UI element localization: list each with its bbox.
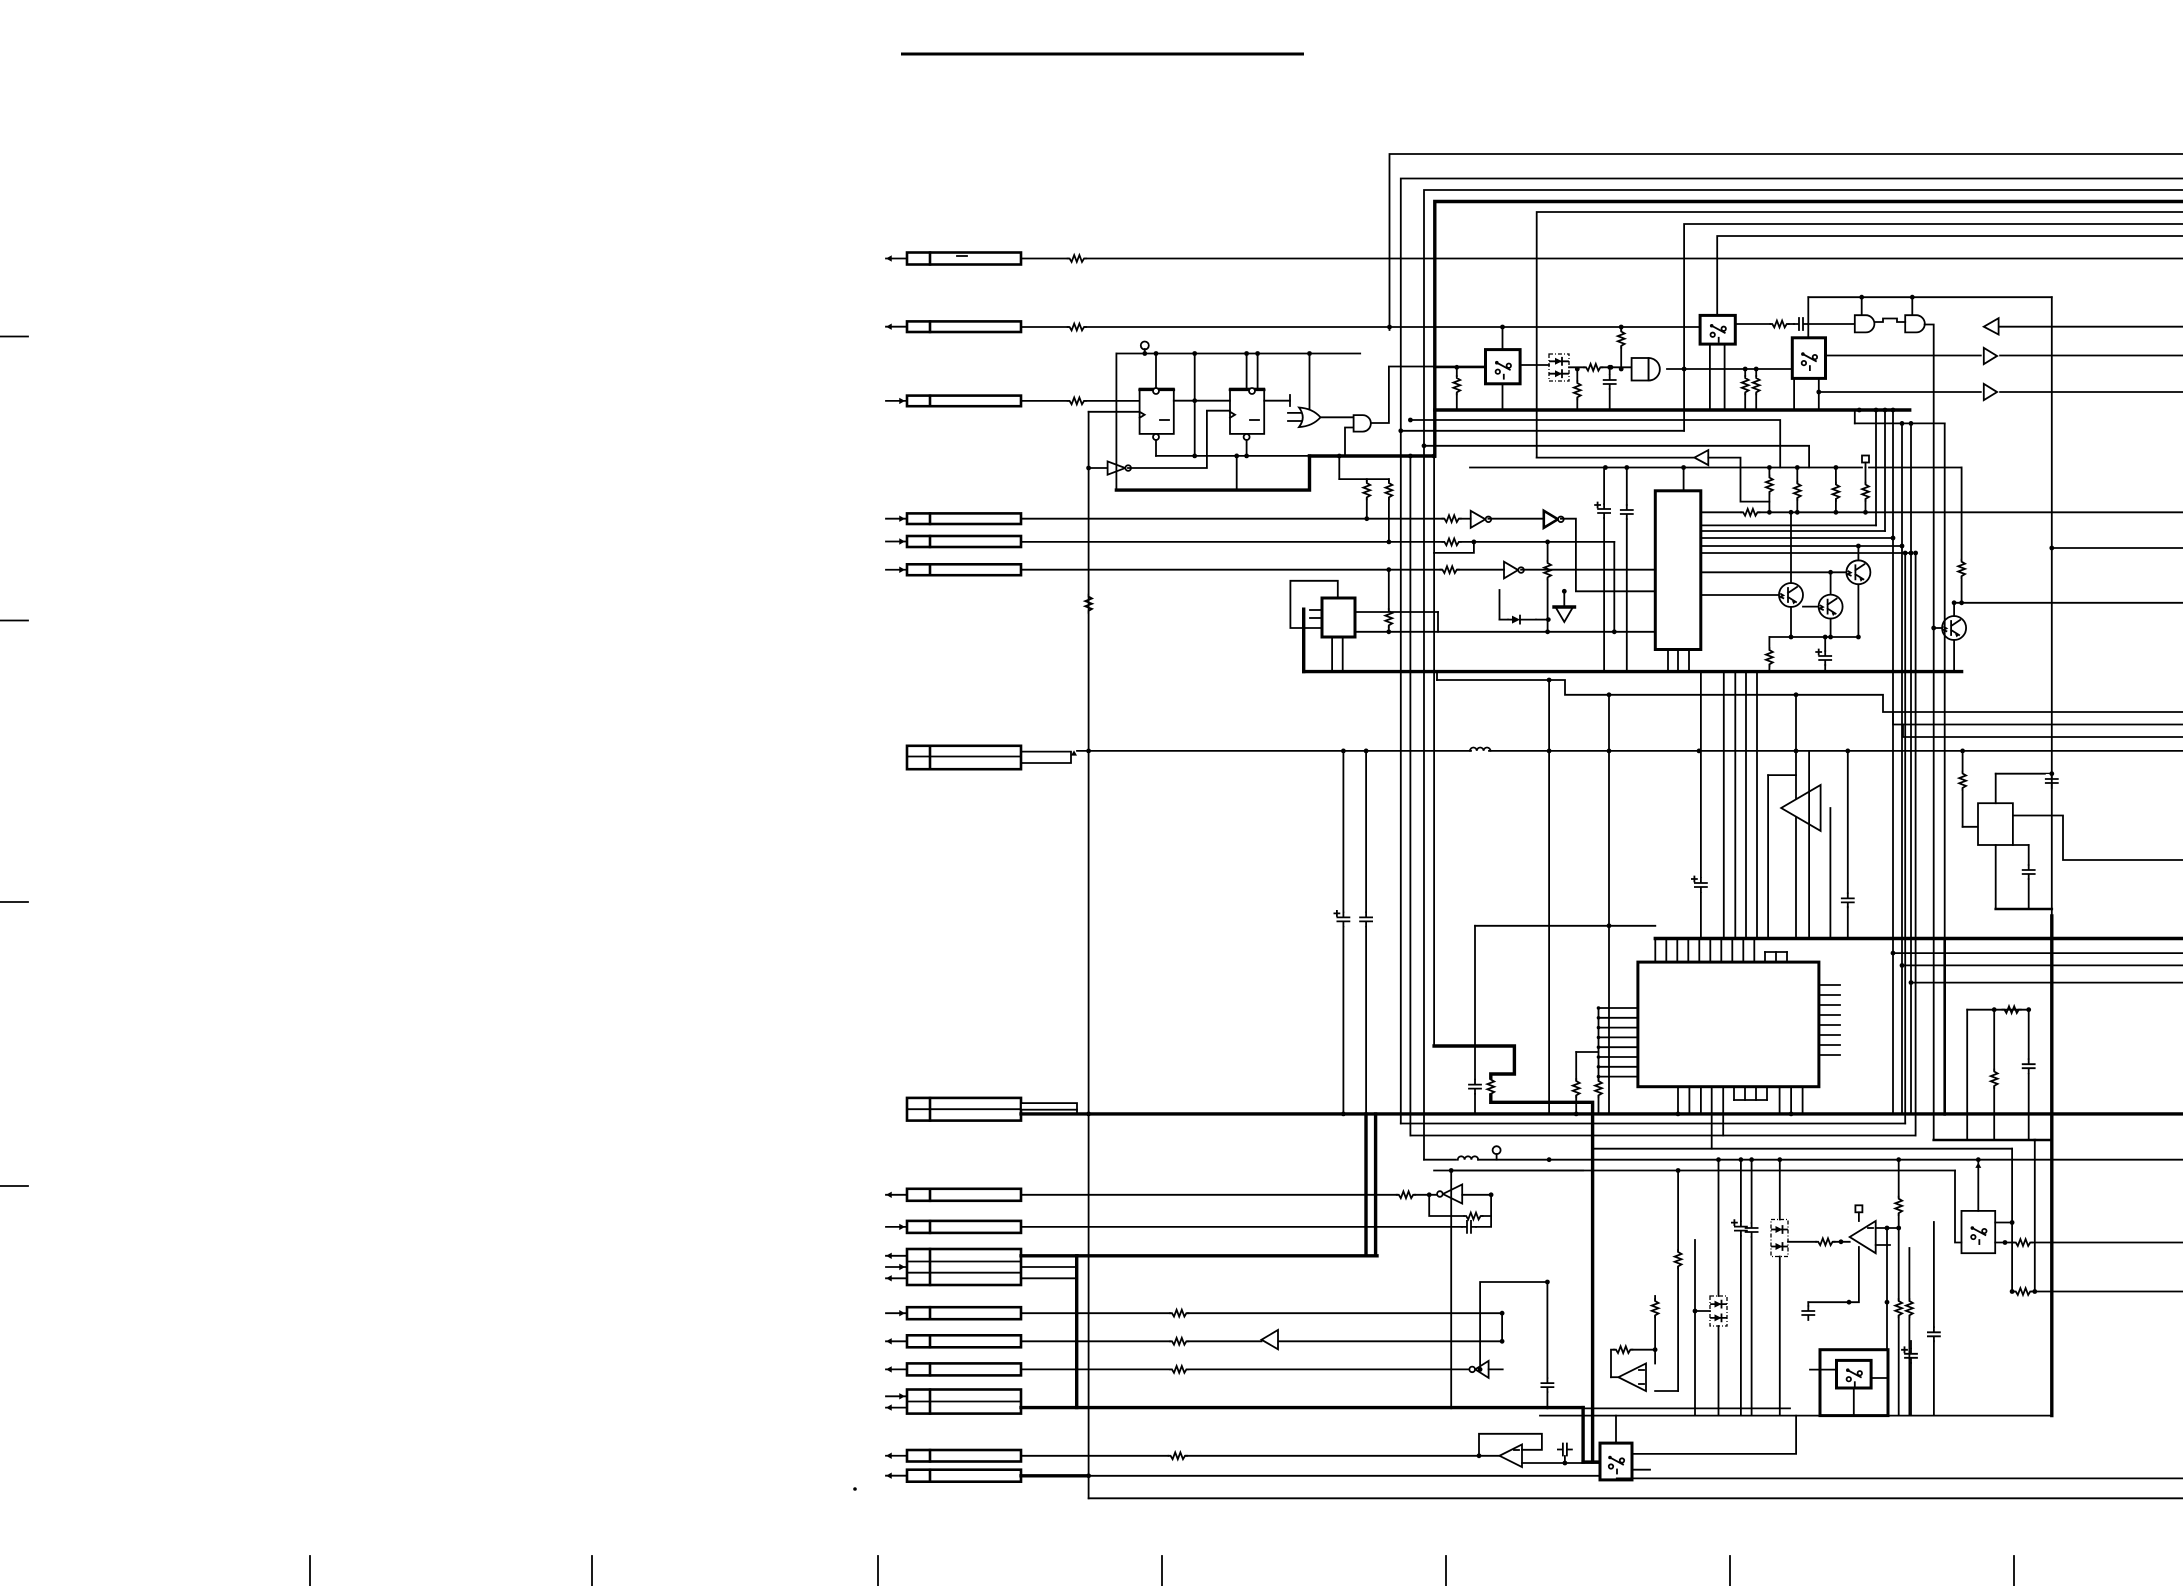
wire thick vert conn11 [1075,1256,1078,1408]
wire qc base [1701,571,1847,573]
capacitor C9 [1692,877,1707,893]
amp U13 [1781,785,1820,831]
wire stair 737 [1903,725,2183,738]
wire line 1498 [1089,1497,2183,1499]
resistor R9 [1544,561,1551,579]
wire v1549 [1547,678,1552,1115]
resistor R23 [1958,468,1965,603]
ic U14 [1638,962,1819,1087]
wire U8 bottom pins [1332,637,1343,672]
resistor R20 [1862,483,1869,501]
wire gate out [1667,367,1792,372]
wire net CONN14 [1021,1368,1470,1370]
wire c2-anda [1808,323,1855,325]
wire pin line 553 [1701,552,1911,554]
connector P9 [886,1189,1021,1201]
ic U8 [1322,598,1355,637]
wire conn5 left branch [1434,542,1474,553]
resistor R10 [1440,566,1458,573]
wire u11 bottom pins [1668,650,1689,672]
resistor R4 [1085,595,1092,613]
page tick bottom 4 [1161,1556,1163,1586]
resistor R29 [1464,1213,1482,1220]
wire pin line 538 [1701,537,1893,539]
wire u19 fb [1611,1350,1655,1378]
connector P7 [907,746,1021,769]
connector P4 [886,513,1021,524]
resistor R43 [1991,1006,2021,1088]
wire u14 bottom pins [1678,1087,1803,1115]
wire thick pair [1366,1114,1376,1256]
capacitor C2 [1794,318,1808,330]
wire amp flag [1768,692,1798,938]
buffer U12 [1537,450,1709,465]
wire FF mid vertical [1192,351,1197,456]
capacitor C3 [1595,468,1610,672]
diode D1 [1508,616,1536,624]
wire FF lower link [1156,454,1310,459]
resistor R35 [1652,1296,1659,1352]
resistor R27 [1487,1078,1494,1096]
arrow A1 [1262,1330,1279,1349]
resistor R42 [2014,1288,2032,1295]
buffer U6 [1544,511,1564,528]
wire q3 coll [1828,570,1833,595]
wire diode branch [1500,590,1551,622]
wire net CONN5 [1021,540,1614,545]
connector P10 [886,1221,1021,1233]
wire line 1171 [1434,1170,1955,1172]
switch SW5 [1962,1211,1996,1253]
wire v1885 [1883,408,1888,531]
inductor L1 [1470,748,1490,751]
wire sw2 out [1735,323,1770,325]
wire q2 emit [1789,607,1794,639]
pull-up terminal [1141,342,1149,356]
wire pin line 531 [1701,530,1885,532]
op-amp U20 [1850,1221,1876,1253]
wire c13 up [1476,1216,1491,1227]
wire bus h5 [1537,212,2183,458]
wire and output [1371,367,1485,424]
resistor R17 [1766,476,1773,494]
wire sw6 wires [1810,1370,1888,1416]
capacitor C11 [2046,774,2058,788]
wire sw1 bottom [1502,384,1504,410]
wire net 751 [1077,749,2183,754]
wire staircase 680 [1437,672,2183,712]
wire triple thick leads [1021,1256,1077,1279]
resistor R37 [1816,1238,1834,1245]
wire line 1148 [1593,1148,2013,1150]
capacitor C16 [1732,1220,1747,1236]
wire line 1163 [1424,1157,2183,1162]
wire sw2 bottom [1710,344,1725,410]
wire right lines 983 [1911,982,2183,984]
wire bus h7 [1717,236,2183,315]
wire step line 423 [1855,410,1945,423]
capacitor C13 [1462,1221,1476,1233]
buffer T2 [1984,384,1997,400]
capacitor C1 [1604,365,1616,410]
wire FF1 D line [1174,400,1230,402]
wire u14 top pins short [1765,952,1787,962]
op-amp U19 [1618,1364,1646,1392]
wire left vertical bus [1088,412,1090,1499]
wire sw1 in [1434,366,1486,368]
wire net CONN3 [1021,400,1140,402]
wire line 603 [1954,600,2183,605]
wire med bus 1140 [2035,1139,2052,1142]
flip-flop U1A [1140,388,1174,440]
connector P16 [886,1450,1021,1462]
diode pack DP2 [1710,1296,1727,1326]
wire thick bus 1256 [1077,1254,1377,1257]
resistor R15 [1753,367,1760,410]
resistor R41 [2014,1239,2032,1246]
wire net CONN12 [1021,1311,1505,1316]
resistor R19 [1833,483,1840,501]
flip-flop U1B [1230,388,1264,440]
wire right lines 965 [1902,964,2183,966]
page tick bottom 1 [309,1556,311,1586]
resistor R38 [1895,1157,1902,1230]
connector P6 [886,564,1021,575]
wire long vertical right [2049,297,2054,1415]
wire or-and link [1321,416,1354,418]
wire line 926 [1475,926,1655,1115]
wire u14 top pins [1655,939,1754,963]
terminal square [1862,456,1869,468]
wire u15 top [1996,774,2052,804]
page tick bottom 5 [1445,1556,1447,1586]
gate U9 [1632,358,1660,381]
page tick bottom 7 [2013,1556,2015,1586]
transistor Q3 [1819,595,1843,619]
wire thick link 456 [1310,454,1435,457]
wire U7 out [1521,569,1655,571]
wire line 637 [1769,635,1858,640]
wire net CONN10 [1021,1226,1462,1228]
transistor Q2 [1779,583,1803,607]
wire u14 right pins [1819,985,1840,1055]
resistor R3 [1068,398,1086,405]
resistor R39 [1895,1228,1902,1416]
wire sw5 right up [1995,1149,2014,1292]
wire amp pins [1809,751,1848,939]
wire pin header thick [1655,937,2183,940]
diode pack DP3 [1771,1220,1788,1257]
connector P5 [886,536,1021,547]
resistor R34 [1614,1346,1632,1353]
wire sw3 top [1807,297,1809,338]
resistor R33 [1169,1452,1187,1459]
wire u18 out [1522,1461,1600,1466]
wire res pair stub [1337,454,1389,481]
wire q4 emit [1953,640,1955,672]
wire line 1291 [2010,1289,2183,1294]
resistor R22 [1766,637,1773,672]
wire mid block [1967,1007,2031,1140]
wire U8 left pins [1310,610,1322,618]
page tick left 3 [0,901,28,903]
wire andb out [1925,325,1934,1141]
switch SW6 outer [1820,1350,1888,1416]
wire conn5 drop1 [1547,542,1549,632]
wire net CONN17 [1021,1473,1600,1478]
page tick left 1 [0,336,28,338]
wire left-arrow line [1984,318,2183,334]
capacitor C8 [1469,1080,1481,1094]
wire pin line 525 [1701,524,1876,526]
switch SW2 [1700,315,1735,344]
ic U11 [1655,491,1701,650]
wire step 430 [1398,428,1684,433]
wire OR top feed [1307,351,1312,408]
wire v2034 [1934,1140,2035,1292]
connector P8 [907,1098,1021,1121]
wire q1 emit [1856,584,1861,639]
wire u16 top [1449,1168,1454,1408]
resistor R45 [1574,367,1581,410]
and-gate U10B [1905,315,1925,332]
wire qa base [1701,594,1779,596]
wire FF1 bottom [1155,440,1157,456]
wire q2 coll [1789,510,1794,583]
wire inverter out [1128,411,1230,468]
connector P11 [886,1249,1021,1285]
resistor R1 [1068,255,1086,262]
resistor R18 [1794,482,1801,500]
connector P13 [886,1335,1021,1347]
wire FF ground bus thick [1116,354,1309,491]
wire and second input [1345,428,1354,457]
resistor R24 [1573,1052,1599,1114]
op-amp U18 [1500,1445,1523,1468]
inverter U16 [1437,1184,1462,1203]
wire ic-small link [1355,629,1655,634]
capacitor C19 [1928,1222,1940,1416]
switch SW4 [1600,1443,1632,1480]
stray dot [853,1487,857,1491]
wire cluster rail [1808,295,2052,300]
wire rail 1416 [1540,1415,2052,1417]
wire P7 leads [1021,750,1077,763]
wire line 1171b [1451,1170,1583,1172]
wire main bus thick [1021,1112,2183,1117]
resistor R31 [1170,1338,1188,1345]
title rule [901,53,1304,56]
page tick bottom 6 [1729,1556,1731,1586]
page tick left 4 [0,1185,28,1187]
connector P2 [886,321,1021,332]
resistor R13 [1584,364,1602,371]
wire conn5 drop2 [1613,542,1615,632]
wire bus h1 [1390,154,2183,330]
wire q1 coll [1856,544,1861,561]
transistor Q1 [1846,560,1870,584]
capacitor C21 [2023,1059,2035,1073]
wire q3 emit [1828,619,1833,640]
and-gate U10A [1855,315,1875,332]
wire v1502 [1501,1313,1503,1341]
resistor R12 [1453,365,1460,410]
wire u14 drop pins [1712,1087,1724,1149]
ref triangle [1554,589,1575,622]
connector P14 [886,1363,1021,1375]
wire r44-c2 [1788,323,1794,325]
wire v1876 [1874,408,1879,526]
wire r13-gate [1602,365,1632,370]
wire pin line 546 [1701,545,1902,547]
wire u15 right step [2013,816,2183,861]
wire v1609 [1607,692,1612,1114]
wire v1944 med [1944,423,1946,1114]
wire U6 out [1561,519,1655,592]
wire thick bus 410 [1435,408,1910,413]
buffer U7 [1504,562,1524,579]
capacitor C18 [1802,1302,1814,1320]
wire v1741 [1739,1157,1744,1415]
wire sw5 left [1955,1171,1962,1243]
wire stair 724 [1893,712,2183,725]
wire v1752 [1749,1157,1754,1415]
wire FF2 bottom [1234,440,1246,490]
page tick left 2 [0,620,28,622]
wire U8 top loop [1290,581,1337,628]
wire sw5 top [1975,1160,1981,1211]
buffer U5 [1471,511,1492,528]
inverter U2 [1086,461,1131,474]
resistor R11 [1385,567,1392,632]
transistor Q4 [1942,616,1966,640]
wire anda top [1861,297,1863,315]
wire r37-opamp [1834,1239,1850,1244]
terminal square 2 [1855,1205,1862,1221]
ic U15 [1978,803,2013,845]
wire u12 loop [1708,458,1769,502]
page tick bottom 2 [591,1556,593,1586]
wire qb base [1803,606,1819,608]
wire net CONN2 [1021,326,1700,328]
wire T2 line [1816,390,2183,395]
resistor R36 [1655,1168,1681,1391]
resistor R25 [1595,1077,1602,1115]
resistor R26 [1959,772,1966,790]
wire sw4 top [1615,1416,1617,1444]
buffer U17 [1469,1361,1502,1378]
diode pack DP1 [1549,354,1569,381]
wire sw5 out [1995,1240,2183,1245]
wire u14 left rail [1598,1008,1600,1077]
capacitor C5 [1816,637,1831,672]
resistor R8 [1442,539,1460,546]
pull-up terminal 2 [1493,1146,1501,1160]
page tick bottom 3 [877,1556,879,1586]
wire res group [1769,468,1865,513]
wire net CONN16 [1021,1455,1500,1457]
wire u16 fb [1427,1192,1494,1216]
connector P8 extension [1021,1103,1077,1114]
wire U8 right link [1355,612,1438,632]
wire u18 loop [1477,1434,1542,1458]
wire FF supply rail [1116,353,1360,355]
wire bus h6 [1684,224,2183,431]
wire u14 left pins [1597,1006,1638,1078]
wire q4 coll [1952,600,1957,616]
resistor R21 [1741,509,1759,516]
inductor L2 [1458,1156,1478,1159]
wire net CONN1 [1021,258,2183,260]
wire step 445 [1422,443,1810,467]
and-gate U4 [1354,415,1371,432]
wire andb top [1911,297,1913,315]
wire thick jog path [1434,1046,1593,1462]
connector P12 [886,1307,1021,1319]
wire bus h4 thick [1435,202,2183,457]
switch SW6 inner [1837,1360,1872,1388]
wire rail 468 [1470,465,1962,470]
wire thick L U8 [1304,609,1962,671]
wire dp3 wires [1777,1157,1816,1415]
resistor R40 [1906,1248,1913,1416]
wire thick bus 1408 [1021,1408,1600,1463]
wire net CONN4 [1021,518,1471,520]
wire u20 plus wires [1876,1226,1899,1245]
wire T1 line [1826,355,2183,357]
resistor R14 [1742,367,1749,410]
wire bus h3 [1424,190,2183,1160]
resistor R5 [1363,481,1370,521]
wire a-b jog [1874,319,1905,323]
capacitor C10 [1842,893,1854,907]
wire line 512 [1701,510,2183,515]
resistor R16 [1618,327,1625,371]
connector P15 [886,1390,1021,1414]
wire amp verticals [1701,672,1768,939]
wire FF1 clk line [1089,411,1140,413]
capacitor C4 [1621,468,1633,672]
capacitor C14 [1541,1282,1553,1408]
wire dp2 wires [1693,1157,1721,1415]
wire v1962 [1963,751,1978,827]
connector P1 [886,253,1021,265]
wire right lines 953 [1893,952,2183,954]
wire v1902 [1900,421,1905,1114]
connector P3 [886,396,1021,407]
wire bus h2 [1401,179,2183,1124]
wire u11 top pin [1683,468,1685,491]
wire sw1 out [1520,364,1549,366]
resistor R44 [1770,321,1788,328]
capacitor C12 [2013,845,2035,909]
resistor R6 [1386,481,1393,544]
wire v1695 [1694,1240,1696,1416]
wire q4 base [1931,626,1942,631]
resistor R28 [1397,1191,1415,1198]
wire U5-U6 [1488,518,1543,520]
wire v1911 [1909,421,1914,1114]
switch SW3 [1792,338,1825,379]
resistor R7 [1442,515,1460,522]
node conn2-sw1 junction [1387,325,1624,330]
wire v1434 thin [1432,454,1437,1046]
connector P17 [886,1470,1021,1482]
capacitor C6 [1334,751,1349,1115]
wire below-bus lines [1401,454,1916,1136]
capacitor C15 [1558,1444,1572,1464]
wire net CONN6 [1021,569,1504,571]
